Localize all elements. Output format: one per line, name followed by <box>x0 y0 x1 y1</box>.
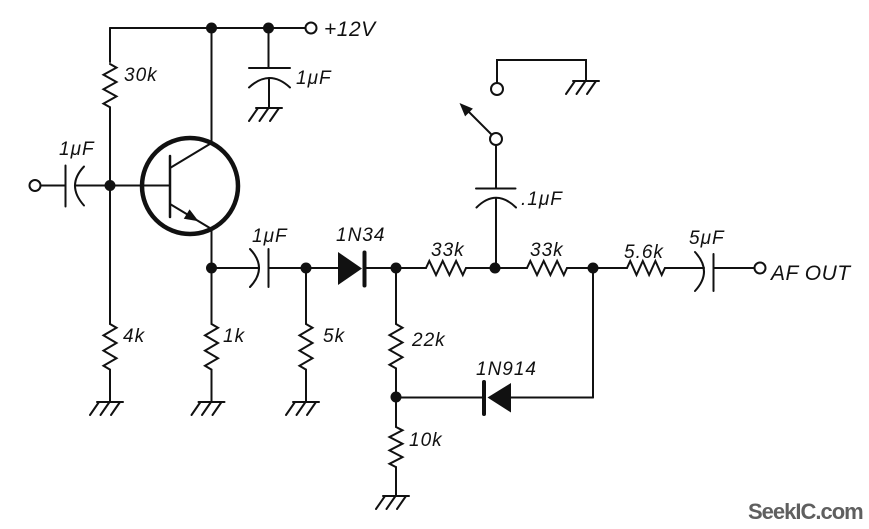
svg-text:33k: 33k <box>431 240 465 261</box>
svg-text:22k: 22k <box>411 330 446 351</box>
wire right riser <box>592 268 594 398</box>
wire cap node to second 33k <box>495 267 527 269</box>
wire switch top to ground <box>497 60 586 83</box>
diode 1N914 <box>482 382 486 414</box>
transistor Q1 base bar <box>169 156 172 217</box>
wire output cap to AF OUT <box>714 267 755 269</box>
switch blade <box>468 111 492 135</box>
wire diode to 22k node <box>367 267 397 269</box>
terminal +12V <box>306 23 317 34</box>
transistor Q1 emitter stroke <box>170 204 212 229</box>
wire 22k to lower node <box>395 368 397 397</box>
wire base node down to 4k <box>109 186 111 325</box>
wire input to cap <box>41 185 66 187</box>
ground below 5k <box>286 402 319 415</box>
ground top right <box>566 81 599 94</box>
svg-text:1k: 1k <box>223 326 246 347</box>
wire 10k to ground <box>395 467 397 496</box>
terminal AF OUT <box>755 263 766 274</box>
wire 5.6k to output cap <box>665 267 704 269</box>
svg-text:5k: 5k <box>323 326 346 347</box>
node right junction <box>588 263 599 274</box>
svg-text:+12V: +12V <box>324 18 377 41</box>
wire 5k node to diode <box>306 267 338 269</box>
node 5k junction <box>301 263 312 274</box>
resistor 4k <box>104 324 117 370</box>
capacitor 1uF coupling <box>250 249 269 287</box>
ground below 4k <box>90 402 123 415</box>
wire 1k branch <box>211 268 213 324</box>
capacitor 1uF input <box>66 166 85 207</box>
resistor 5k <box>300 324 313 370</box>
svg-text:10k: 10k <box>409 430 443 451</box>
node top rail collector junction <box>206 23 217 34</box>
wire emitter down to node <box>211 229 213 268</box>
wire bypass cap to ground <box>268 78 270 108</box>
svg-text:AF OUT: AF OUT <box>769 262 852 285</box>
switch blade arrow <box>460 103 473 116</box>
wire input cap to base node <box>76 185 171 187</box>
resistor 10k <box>390 427 403 467</box>
switch lower terminal <box>490 133 502 145</box>
capacitor 1uF bypass <box>249 68 290 88</box>
diode 1N34 <box>338 252 362 285</box>
resistor 33k second <box>527 261 567 275</box>
ground below bypass cap <box>249 108 282 121</box>
node base <box>105 180 116 191</box>
svg-text:1N34: 1N34 <box>336 225 385 246</box>
svg-text:4k: 4k <box>123 326 146 347</box>
capacitor .1uF <box>476 189 516 208</box>
wire left branch down to 30k <box>109 28 111 62</box>
wire second 33k to right node <box>567 267 593 269</box>
node switch cap junction <box>490 263 501 274</box>
node top rail bypass junction <box>263 23 274 34</box>
wire collector up to rail <box>211 28 213 143</box>
wire coupling cap to 5k node <box>269 267 307 269</box>
svg-text:30k: 30k <box>124 65 158 86</box>
wire switch to .1uF cap <box>495 145 497 189</box>
wire right node to 5.6k <box>593 267 627 269</box>
resistor 5.6k <box>627 261 665 275</box>
svg-text:1N914: 1N914 <box>476 359 537 380</box>
wire top rail <box>110 27 305 29</box>
node emitter <box>206 263 217 274</box>
wire 22k node to first 33k <box>396 267 426 269</box>
wire emitter node to coupling cap <box>212 267 260 269</box>
svg-text:5μF: 5μF <box>689 228 725 249</box>
transistor Q1 body <box>142 138 238 234</box>
resistor 33k first <box>426 261 466 275</box>
wire 5k branch <box>305 268 307 324</box>
transistor Q1 collector stroke <box>170 143 212 168</box>
wire .1uF to main line <box>495 198 497 268</box>
terminal input <box>30 180 41 191</box>
wire 33k to cap node <box>466 267 495 269</box>
ground below 1k <box>192 402 225 415</box>
svg-text:.1μF: .1μF <box>521 189 563 210</box>
resistor 22k <box>390 324 403 368</box>
transistor Q1 emitter arrow <box>185 210 198 220</box>
resistor 30k <box>104 64 117 107</box>
wire 1k to ground <box>211 370 213 402</box>
switch upper terminal <box>491 83 503 95</box>
wire lower node to 1N914 <box>396 397 482 399</box>
wire lower node to 10k <box>395 397 397 427</box>
capacitor 5uF output <box>695 252 714 291</box>
wire 4k to ground <box>109 370 111 402</box>
svg-text:1μF: 1μF <box>252 226 288 247</box>
resistor 1k <box>205 324 218 370</box>
ground below 10k <box>376 496 409 509</box>
wire 22k branch <box>395 268 397 324</box>
node 22k junction <box>391 263 402 274</box>
svg-text:5.6k: 5.6k <box>624 242 664 263</box>
wire 5k to ground <box>305 370 307 402</box>
wire 30k to base node <box>109 107 111 185</box>
svg-text:1μF: 1μF <box>296 68 332 89</box>
wire bypass cap from rail <box>268 28 270 68</box>
svg-text:1μF: 1μF <box>59 139 95 160</box>
svg-text:33k: 33k <box>530 240 564 261</box>
wire 1N914 to right riser <box>511 397 593 399</box>
node lower junction <box>391 392 402 403</box>
svg-text:SeekIC.com: SeekIC.com <box>748 499 863 524</box>
